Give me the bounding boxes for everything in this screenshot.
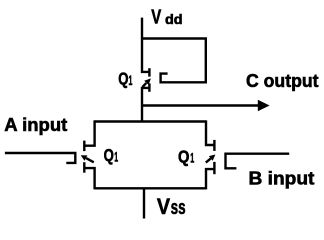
label Q1 (B transistor): [178, 146, 194, 166]
svg-text:C output: C output: [246, 71, 319, 91]
svg-text:ss: ss: [171, 197, 186, 219]
svg-text:1: 1: [114, 150, 118, 165]
output arrowhead: [258, 100, 270, 111]
wire box right edge upper and Q1B drain lead: [206, 120, 214, 145]
svg-text:1: 1: [129, 73, 133, 88]
node box bottom edge: [95, 187, 206, 189]
svg-text:V: V: [151, 7, 161, 29]
transistor Q1 A source contact bar: [83, 162, 85, 173]
svg-text:1: 1: [190, 150, 194, 165]
transistor Q1 A drain contact bar: [83, 141, 85, 152]
transistor Q1 B source contact bar: [213, 162, 215, 174]
wire Vdd to Q1 load drain: [142, 18, 149, 72]
transistor Q1 A bulk arrow: [81, 155, 94, 162]
svg-text:A input: A input: [4, 114, 67, 135]
label Q1 (A transistor): [104, 145, 119, 165]
power rail Vss label: [157, 194, 186, 219]
label Q1 (load transistor): [118, 68, 132, 88]
B input wire and gate hook: [226, 154, 290, 169]
A input wire and gate hook: [5, 153, 75, 163]
transistor Q1 load bulk arrow: [143, 78, 151, 87]
svg-text:B input: B input: [249, 169, 315, 189]
transistor Q1 load source lead and wire to output node: [142, 88, 149, 122]
transistor Q1 B bulk arrow: [206, 155, 216, 163]
svg-text:Q: Q: [178, 146, 189, 166]
ground rail Vss wire: [143, 188, 145, 218]
svg-text:Q: Q: [118, 68, 128, 88]
wire box left edge lower and Q1A source lead: [84, 168, 94, 189]
node box top edge: [95, 120, 206, 122]
wire box right edge lower and Q1B source lead: [206, 169, 214, 189]
transistor Q1 load drain contact bar: [148, 68, 150, 76]
transistor Q1 load source contact bar: [148, 83, 150, 91]
output wire C: [141, 104, 259, 106]
svg-text:Q: Q: [104, 145, 114, 165]
svg-text:V: V: [157, 194, 170, 219]
transistor Q1 load gate hook and feedback loop wire to drain: [142, 39, 206, 83]
svg-text:dd: dd: [165, 11, 183, 27]
wire box left edge upper and Q1A drain lead: [84, 120, 94, 145]
transistor Q1 B drain contact bar: [213, 140, 215, 151]
